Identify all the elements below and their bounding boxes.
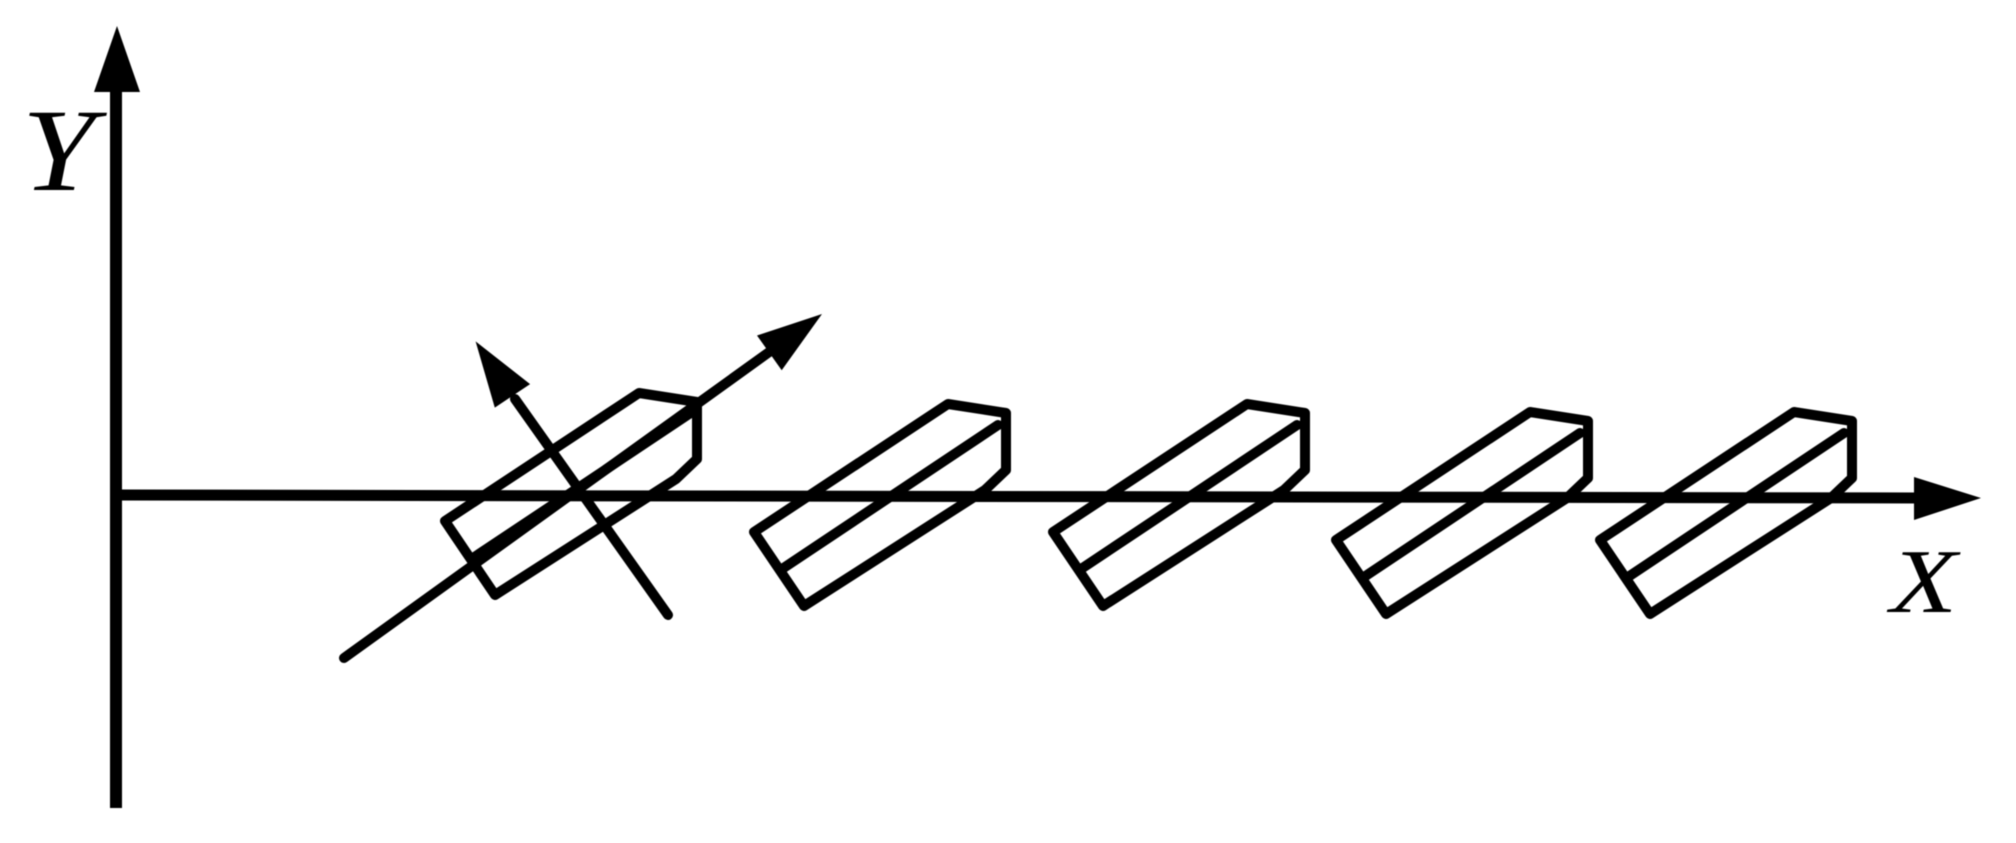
X axis shaft (110, 495, 1920, 498)
propagation arrowhead (up-right) (757, 314, 822, 370)
propagation arrow shaft (up-right) (344, 350, 772, 658)
X axis arrowhead (1914, 477, 1981, 520)
svg-text:Y: Y (22, 85, 107, 216)
bar 5 (1600, 412, 1852, 614)
bar 4 (1336, 412, 1588, 614)
svg-text:X: X (1886, 531, 1961, 632)
Y axis arrowhead (94, 26, 140, 92)
bar 2 (754, 404, 1006, 606)
polarization arrowhead (up-left) (476, 341, 530, 407)
polarization arrow shaft (up-left) (515, 399, 668, 615)
Y axis shaft (110, 80, 122, 808)
bar 3 (1053, 404, 1305, 606)
bar 1 (445, 393, 697, 595)
